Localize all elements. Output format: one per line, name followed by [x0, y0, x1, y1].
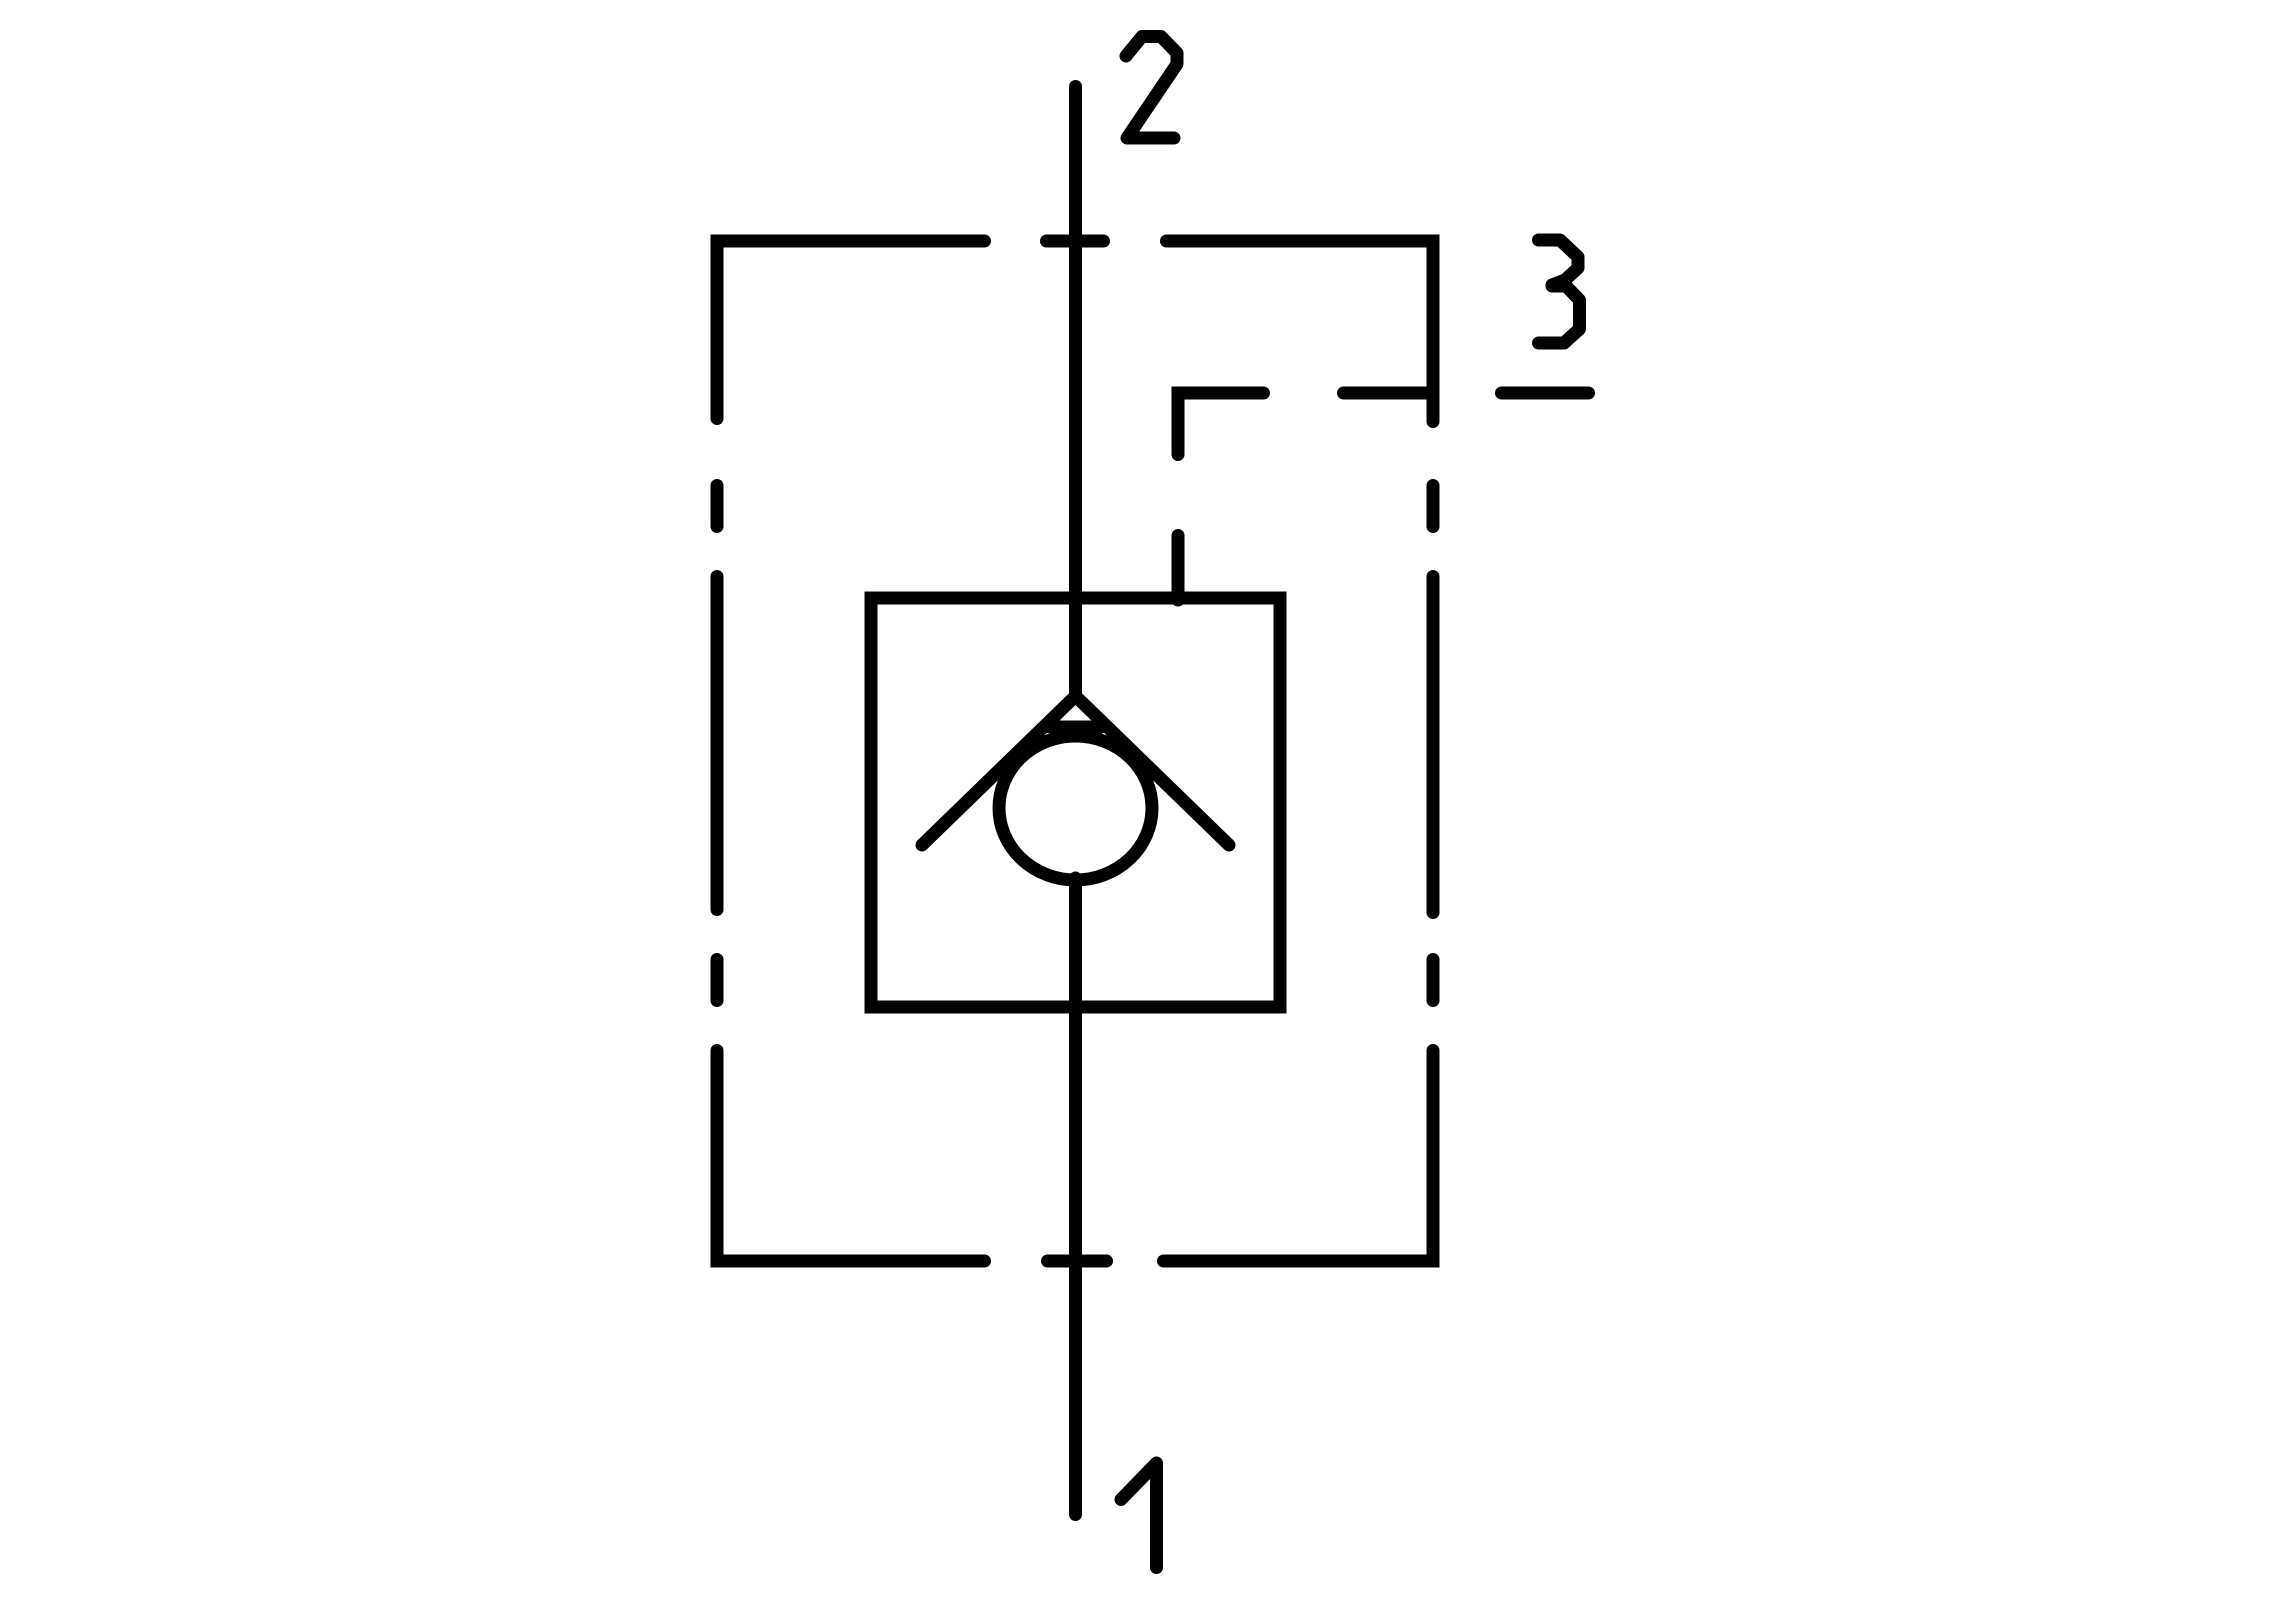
- cartridge envelope top middle dash: [1047, 235, 1104, 248]
- label 3: [1539, 240, 1579, 285]
- port 3 pilot line outer dash: [1502, 387, 1589, 400]
- check valve V1 ball: [999, 736, 1152, 880]
- cartridge envelope left edge dash: [711, 486, 724, 527]
- cartridge envelope bottom middle dash: [1048, 1255, 1107, 1268]
- cartridge envelope right edge dash: [1427, 577, 1440, 913]
- wire port 2 vertical line: [1069, 87, 1082, 696]
- check valve V1 seat right diagonal: [1076, 696, 1230, 845]
- cartridge envelope bottom-left corner dash: [717, 1051, 985, 1262]
- cartridge envelope right edge dash: [1427, 486, 1440, 527]
- port 3 pilot line horizontal dash: [1344, 387, 1434, 400]
- port 3 pilot line corner dash: [1178, 393, 1264, 455]
- label 2: [1126, 37, 1177, 139]
- check valve V1 seat left diagonal: [922, 696, 1076, 845]
- port 3 pilot line vertical dash: [1172, 536, 1185, 601]
- valve body square: [871, 598, 1280, 1007]
- check valve V1 seat bar: [1050, 721, 1101, 734]
- cartridge envelope bottom-right corner dash: [1164, 1051, 1434, 1262]
- cartridge envelope left edge dash: [711, 577, 724, 910]
- label 1: [1121, 1463, 1157, 1568]
- cartridge envelope right edge dash: [1427, 960, 1440, 1001]
- cartridge envelope top-right corner dash: [1167, 241, 1434, 422]
- wire port 1 vertical line: [1069, 878, 1082, 1515]
- cartridge envelope top-left corner dash: [717, 241, 985, 419]
- cartridge envelope left edge dash: [711, 960, 724, 1001]
